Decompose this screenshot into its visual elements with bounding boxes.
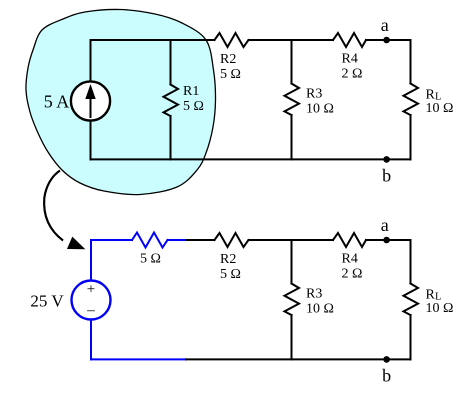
svg-text:+: + (87, 282, 95, 298)
wire: bottom rail black segment (186, 358, 411, 360)
resistor R1 (vertical zigzag) (164, 40, 179, 159)
svg-text:R3: R3 (306, 287, 322, 302)
svg-text:R3: R3 (306, 87, 322, 102)
svg-text:10 Ω: 10 Ω (426, 301, 454, 316)
svg-text:5 Ω: 5 Ω (183, 99, 204, 114)
svg-text:b: b (382, 366, 391, 386)
svg-text:R2: R2 (220, 52, 236, 67)
resistor RL top (vertical zigzag) (404, 84, 419, 116)
svg-text:5 Ω: 5 Ω (140, 252, 161, 267)
node b top (junction dot) (383, 156, 390, 163)
svg-text:R4: R4 (342, 52, 358, 67)
wire: bottom circuit bottom rail blue segment (91, 358, 186, 360)
svg-text:R1: R1 (183, 84, 199, 99)
wire: top circuit right branch (410, 40, 412, 159)
wire: bottom circuit top rail between R2 and R4 (249, 239, 334, 241)
resistor 5 ohm equivalent (blue horizontal zigzag) (132, 233, 168, 248)
svg-text:a: a (381, 215, 389, 235)
voltage source V1 (blue circle) (72, 281, 111, 320)
source transformation highlight blob (26, 9, 216, 194)
node a bottom (junction dot) (383, 237, 390, 244)
svg-text:5 A: 5 A (44, 92, 70, 112)
svg-text:5 Ω: 5 Ω (220, 67, 241, 82)
resistor R3 top (vertical zigzag) (285, 40, 300, 159)
svg-text:R4: R4 (342, 252, 358, 267)
resistor R2 bottom (horizontal zigzag) (215, 233, 249, 247)
svg-text:10 Ω: 10 Ω (306, 302, 334, 317)
resistor RL bottom (vertical zigzag) (404, 284, 419, 316)
svg-text:–: – (86, 303, 95, 319)
resistor R4 bottom (horizontal zigzag) (333, 233, 366, 247)
transformation arrow (curved) (44, 171, 83, 249)
svg-text:b: b (382, 166, 391, 186)
wire: top circuit bottom rail (91, 158, 411, 160)
resistor R4 top (horizontal zigzag) (333, 33, 366, 47)
wire: top rail black segment before R2 (187, 239, 215, 241)
wire: top rail between R2 and R4 (249, 39, 334, 41)
svg-text:a: a (381, 15, 389, 35)
node b bottom (junction dot) (383, 356, 390, 363)
svg-text:10 Ω: 10 Ω (306, 102, 334, 117)
wire: blue top rail after resistor (168, 239, 188, 241)
label RL bottom (426, 288, 442, 303)
svg-text:2 Ω: 2 Ω (342, 67, 363, 82)
wire: bottom circuit top rail blue left segment (91, 239, 132, 241)
svg-text:5 Ω: 5 Ω (220, 267, 241, 282)
current source I1 arrow (86, 86, 95, 119)
node a top (junction dot) (383, 37, 390, 44)
resistor R3 bottom (vertical zigzag) (285, 240, 300, 359)
wire: bottom circuit left branch (blue, voltage source branch) (90, 240, 92, 359)
svg-text:R2: R2 (220, 252, 236, 267)
wire: top rail R4 to corner (366, 39, 411, 41)
svg-text:2 Ω: 2 Ω (342, 267, 363, 282)
wire: bottom circuit top rail R4 to corner (366, 239, 411, 241)
current source I1 (circle) (71, 81, 110, 120)
wire: bottom circuit right branch (410, 240, 412, 359)
resistor R2 top (horizontal zigzag) (215, 33, 249, 47)
svg-text:25 V: 25 V (30, 292, 64, 311)
wire: top circuit top rail left segment (91, 39, 215, 41)
svg-text:10 Ω: 10 Ω (426, 101, 454, 116)
label RL (426, 88, 442, 103)
wire: top circuit left branch (current source branch) (90, 40, 92, 159)
